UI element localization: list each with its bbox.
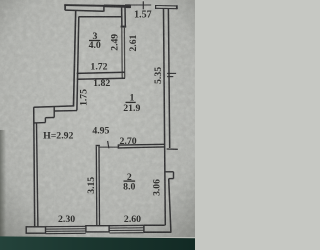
wall: room 2 left wall line 1 [95, 146, 98, 226]
wall: room 3 bottom line 1 [77, 72, 125, 73]
wall: lower-left inner vertical [37, 123, 38, 227]
window 2.30 glazing line 1 [46, 225, 86, 227]
paper background [0, 0, 195, 250]
wall: right T cap at top window [156, 5, 178, 7]
wall: left inner cap horizontal [54, 110, 77, 112]
wall: divider room1/room2 bottom line [118, 147, 164, 148]
dimension tick right wall upper [167, 72, 176, 74]
wall: room 2 left wall top cap [96, 145, 100, 147]
wall: divider room1/room2 top line [118, 143, 164, 146]
wall: mid bottom pier block [86, 226, 109, 232]
wall: partition cap below window pier [121, 26, 127, 28]
wall: right niche top [165, 171, 174, 173]
wall: partition room3 right, left line [121, 6, 123, 27]
wall: bottom-right inner line [144, 224, 165, 226]
dimension tick right wall lower [167, 76, 173, 78]
wall: right niche right vertical [173, 172, 175, 179]
wall: bottom-right window right reveal [143, 225, 145, 233]
room 1 fraction line [126, 101, 136, 103]
window 2.60 glazing line 3 [109, 229, 143, 231]
wall: room 3 bottom line 2 [77, 77, 125, 80]
dark left photo edge [0, 130, 6, 237]
wall: bottom-left corner cap [26, 227, 45, 233]
wall: left outer step horizontal [34, 106, 75, 107]
room 2 fraction line [124, 180, 136, 182]
wall: step horizontal 1 [45, 117, 54, 119]
wall: balcony stub right [167, 148, 178, 150]
room 3 fraction line [89, 40, 100, 42]
wall: top second (inner band) line [65, 10, 104, 11]
wall: left inner vertical / room 3 left [77, 17, 79, 111]
wall: room 3 top inner line [79, 16, 122, 18]
wall: divider left end cap [117, 144, 119, 148]
wall: bottom-right outer line [144, 231, 172, 233]
wall: right outer vertical upper [168, 9, 169, 148]
dimension line 1.57 at top [130, 4, 151, 6]
wall: right niche bottom [169, 178, 174, 180]
window 2.30 glazing line 3 [46, 230, 86, 232]
dimension line 2.70 across doorway [99, 146, 118, 148]
wall: step vertical 2 [44, 118, 46, 123]
window 2.30 glazing line 2 [46, 228, 86, 230]
window 2.60 glazing line 4 [109, 232, 143, 234]
photo vignette [0, 0, 195, 237]
wall: top band jog up at x=100 [103, 6, 105, 11]
wall: lower-left outer vertical [34, 107, 35, 228]
wall: top-left corner vertical [64, 5, 66, 11]
dimension tick 1.57 [142, 1, 144, 9]
window 2.60 glazing line 2 [109, 227, 143, 229]
wall: right inner vertical [164, 9, 166, 226]
wall: step horizontal 2 [34, 122, 45, 124]
window 2.30 glazing line 4 [46, 232, 86, 234]
wall: room 2 left wall line 2 [98, 146, 101, 226]
photo grain overlay [0, 0, 195, 237]
window 2.60 glazing line 1 [109, 224, 143, 226]
wall: top window pier head (thick end) [104, 5, 126, 8]
wall: partition room3 right, right line [124, 6, 126, 27]
wall: left outer vertical (upper) [74, 10, 76, 106]
dimension tick at doorway [108, 141, 109, 148]
wall: step vertical 1 [53, 107, 55, 118]
wall: right outer vertical lower [169, 179, 171, 233]
dark teal band at bottom [0, 236, 195, 250]
wall: top outer line [64, 5, 130, 6]
